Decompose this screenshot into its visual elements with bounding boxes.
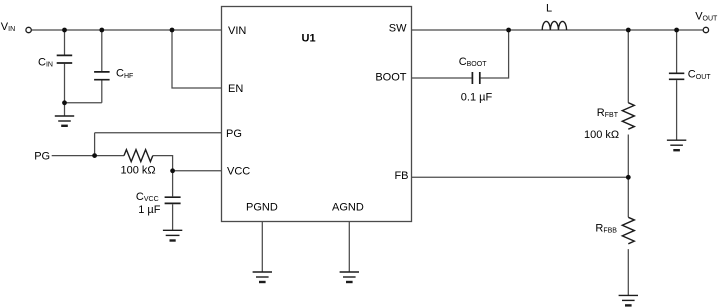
svg-text:L: L [546,3,552,15]
svg-text:EN: EN [228,83,243,95]
svg-text:FB: FB [394,170,408,182]
svg-text:U1: U1 [302,33,316,45]
svg-text:PG: PG [34,151,50,163]
svg-text:AGND: AGND [332,202,364,214]
svg-text:100 kΩ: 100 kΩ [121,165,156,177]
svg-text:1 µF: 1 µF [138,204,161,216]
svg-text:PGND: PGND [246,202,278,214]
svg-text:BOOT: BOOT [375,72,406,84]
svg-text:100 kΩ: 100 kΩ [584,129,619,141]
svg-text:SW: SW [389,22,407,34]
svg-text:VIN: VIN [228,25,246,37]
svg-text:VCC: VCC [227,166,250,178]
svg-text:PG: PG [226,128,242,140]
svg-text:0.1 µF: 0.1 µF [461,92,493,104]
